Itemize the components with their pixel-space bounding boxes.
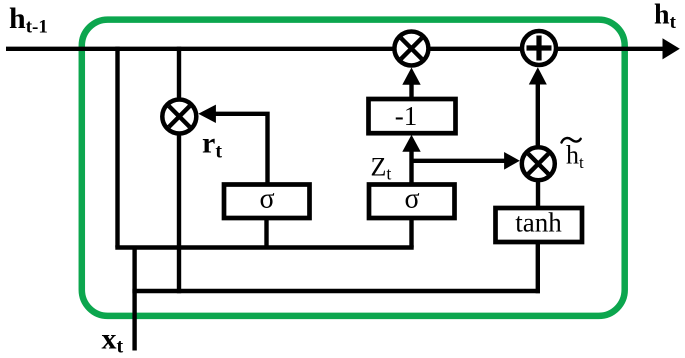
arrowhead into -1 box: [402, 135, 420, 152]
svg-text:rt: rt: [202, 127, 222, 163]
box: -1: [369, 99, 456, 133]
svg-text:σ: σ: [404, 184, 419, 215]
wire: tanh output down to bus H2: [536, 240, 540, 293]
X cross of r multiplier: [169, 106, 190, 127]
adder circle on main line: [522, 31, 556, 65]
svg-text:ht: ht: [566, 141, 584, 173]
wire: x(t) input vertical: [132, 248, 136, 351]
arrowhead on main line output h(t): [663, 38, 680, 59]
wire: main horizontal state line h(t-1) to h(t): [6, 47, 666, 51]
svg-text:Zt: Zt: [371, 153, 392, 184]
sigma box 2: [369, 185, 455, 219]
multiplier circle on r branch: [162, 100, 196, 134]
wire: z(t) branch to candidate multiplier: [412, 159, 507, 163]
wire: horizontal bus H1: [115, 245, 413, 249]
plus cross of adder: [527, 36, 552, 61]
arrowhead into adder: [529, 67, 547, 84]
arrowhead into multiplier r(t): [198, 105, 216, 123]
svg-text:tanh: tanh: [515, 208, 562, 238]
wire: from r-gate arrow corner down to sigma1: [214, 114, 268, 186]
wire: sigma1 output down to bus H1: [264, 216, 268, 248]
svg-text:σ: σ: [259, 184, 274, 215]
wire: vertical branch V2 through r-gate multiplier: [177, 47, 181, 294]
sigma box 1: [224, 185, 310, 219]
multiplier circle for candidate h-tilde: [522, 147, 555, 180]
wire: -1 box up to top multiplier: [409, 85, 413, 102]
wire: candidate multiplier up to adder: [536, 85, 540, 151]
wire: vertical branch V1 from state line down to lower bus: [115, 47, 119, 248]
wire: sigma2 output down to bus H1: [409, 216, 413, 248]
arrowhead into top multiplier: [402, 68, 420, 85]
X cross of candidate multiplier: [528, 154, 548, 174]
svg-text:ht-1: ht-1: [9, 2, 48, 38]
arrowhead into multiplier h-tilde: [504, 152, 520, 170]
wire: sigma2 up to -1 box: [409, 151, 413, 186]
svg-text:xt: xt: [102, 323, 124, 358]
multiplier circle on main line: [394, 32, 428, 66]
svg-text:-1: -1: [395, 101, 418, 131]
tilde accent over h: [562, 138, 581, 142]
tanh box: [496, 208, 583, 242]
svg-text:ht: ht: [654, 0, 677, 33]
wire: h-tilde multiplier down to tanh: [536, 178, 540, 210]
wire: horizontal bus H2: [132, 289, 540, 293]
X cross of main-line multiplier: [401, 38, 422, 59]
GRU cell boundary (green rounded rectangle): [82, 20, 625, 316]
